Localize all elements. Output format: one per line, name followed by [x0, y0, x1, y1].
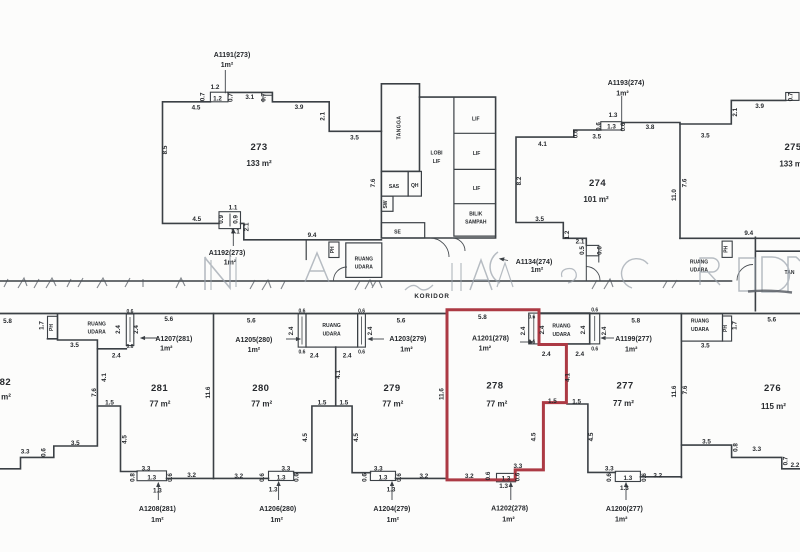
- ruang udara small box 277: [590, 313, 600, 344]
- svg-text:LIF: LIF: [473, 186, 481, 192]
- svg-text:2.4: 2.4: [575, 351, 584, 358]
- ruang udara box 282-281: [48, 314, 127, 349]
- svg-text:0.6: 0.6: [299, 309, 306, 315]
- svg-text:2.4: 2.4: [601, 326, 608, 335]
- svg-text:1.7: 1.7: [732, 321, 739, 330]
- svg-text:0.9: 0.9: [232, 215, 239, 224]
- svg-text:5.8: 5.8: [631, 318, 640, 325]
- svg-text:1.3: 1.3: [379, 474, 388, 481]
- svg-text:0.6: 0.6: [40, 448, 47, 457]
- svg-text:A1206(280): A1206(280): [259, 506, 296, 513]
- svg-text:4.5: 4.5: [192, 216, 201, 223]
- svg-text:0.6: 0.6: [591, 347, 598, 353]
- svg-text:4.1: 4.1: [538, 141, 547, 148]
- svg-text:273: 273: [250, 142, 267, 153]
- svg-text:11.6: 11.6: [671, 385, 678, 397]
- svg-text:0.7: 0.7: [783, 456, 790, 465]
- svg-text:1.3: 1.3: [153, 488, 162, 495]
- svg-text:4.5: 4.5: [588, 432, 595, 441]
- svg-text:2.4: 2.4: [310, 353, 319, 360]
- A1134 niche box: [586, 245, 599, 255]
- svg-text:3.2: 3.2: [465, 473, 474, 480]
- svg-text:1.5: 1.5: [340, 400, 349, 407]
- A1192 niche box: [219, 212, 241, 229]
- wall 282/281: [0, 349, 97, 469]
- 279 bottom niche box: [370, 471, 395, 480]
- ruang udara small box 279: [358, 314, 366, 347]
- svg-text:1.2: 1.2: [213, 95, 222, 102]
- svg-text:3.9: 3.9: [295, 104, 304, 111]
- svg-text:A1199(277): A1199(277): [615, 336, 652, 343]
- svg-text:3.3: 3.3: [514, 463, 523, 470]
- door arc left ruang udara: [334, 267, 348, 281]
- svg-text:4.1: 4.1: [335, 370, 342, 379]
- svg-text:77 m²: 77 m²: [0, 393, 11, 402]
- svg-text:9.4: 9.4: [744, 230, 753, 237]
- arrow A1201: [520, 341, 533, 343]
- qh room: [408, 171, 421, 196]
- svg-text:3.5: 3.5: [350, 135, 359, 142]
- svg-text:1.5: 1.5: [548, 398, 557, 405]
- svg-text:0.6: 0.6: [299, 350, 306, 356]
- arrow A1207: [141, 337, 158, 339]
- svg-text:LIF: LIF: [433, 159, 441, 165]
- svg-text:A1191(273): A1191(273): [214, 52, 251, 59]
- svg-text:1.3: 1.3: [620, 485, 629, 492]
- stub wall below 273: [305, 240, 307, 260]
- svg-text:2.4: 2.4: [539, 325, 546, 334]
- svg-text:8.2: 8.2: [516, 176, 523, 185]
- svg-text:11.6: 11.6: [205, 386, 212, 398]
- svg-text:1.1: 1.1: [229, 205, 238, 212]
- svg-text:3.1: 3.1: [245, 94, 254, 101]
- svg-text:BILIK: BILIK: [469, 212, 482, 218]
- svg-text:1.3: 1.3: [277, 474, 286, 481]
- se room: [381, 223, 424, 238]
- svg-text:1m²: 1m²: [151, 517, 164, 524]
- svg-text:0.6: 0.6: [528, 315, 535, 321]
- svg-text:5.8: 5.8: [3, 318, 12, 325]
- svg-text:2.4: 2.4: [542, 351, 551, 358]
- svg-text:1.3: 1.3: [147, 475, 156, 482]
- svg-text:A1208(281): A1208(281): [139, 506, 176, 513]
- svg-text:0.7: 0.7: [788, 92, 795, 101]
- door notch 273 top: [263, 95, 272, 102]
- leader A1206: [278, 482, 280, 500]
- svg-text:4.5: 4.5: [353, 433, 360, 442]
- svg-text:11.6: 11.6: [438, 388, 445, 400]
- svg-text:279: 279: [383, 383, 400, 394]
- unit 275 outline: [680, 100, 786, 124]
- door arc core: [430, 238, 449, 257]
- svg-text:3.3: 3.3: [282, 466, 291, 473]
- svg-text:3.5: 3.5: [701, 343, 710, 350]
- svg-text:QH: QH: [411, 183, 419, 189]
- svg-text:2.4: 2.4: [288, 326, 295, 335]
- ph box 276: [723, 316, 732, 341]
- wall 277/276: [680, 314, 682, 478]
- svg-text:280: 280: [252, 383, 269, 394]
- svg-text:281: 281: [151, 383, 168, 394]
- svg-text:1m²: 1m²: [616, 91, 629, 98]
- leader A1192: [232, 229, 234, 246]
- arrow A1203: [369, 338, 385, 340]
- svg-text:278: 278: [486, 381, 503, 392]
- svg-text:1.3: 1.3: [387, 487, 396, 494]
- svg-text:1.2: 1.2: [564, 230, 571, 239]
- svg-text:5.6: 5.6: [767, 317, 776, 324]
- ph box unit282: [48, 316, 58, 339]
- svg-text:0.6: 0.6: [127, 344, 134, 350]
- leader A1204: [391, 482, 393, 500]
- svg-text:RUANG: RUANG: [322, 323, 340, 329]
- svg-text:A1202(278): A1202(278): [491, 506, 528, 513]
- svg-text:7.6: 7.6: [91, 388, 98, 397]
- svg-text:0.6: 0.6: [573, 129, 580, 138]
- watermark strokes: [4, 252, 800, 292]
- svg-text:1m²: 1m²: [479, 346, 492, 353]
- svg-text:3.5: 3.5: [701, 133, 710, 140]
- svg-text:PH: PH: [723, 245, 729, 252]
- ruang udara small box 281: [126, 314, 134, 346]
- 277 bottom wall: [640, 476, 681, 478]
- svg-text:7.6: 7.6: [682, 178, 689, 187]
- 281 bottom wall: [167, 477, 214, 479]
- bottom units top line: [0, 313, 800, 315]
- svg-text:2.4: 2.4: [520, 326, 527, 335]
- svg-text:0.6: 0.6: [641, 473, 648, 482]
- stair wall right: [755, 237, 800, 310]
- svg-text:275: 275: [784, 142, 800, 153]
- svg-text:0.6: 0.6: [127, 309, 134, 315]
- arrow A1205: [286, 338, 300, 340]
- svg-text:77 m²: 77 m²: [613, 399, 634, 408]
- 280 bottom niche box: [269, 471, 294, 480]
- niche divider: [229, 214, 231, 226]
- svg-text:4.5: 4.5: [121, 435, 128, 444]
- svg-text:A1200(277): A1200(277): [606, 506, 643, 513]
- svg-text:KORIDOR: KORIDOR: [414, 293, 449, 300]
- svg-text:1m²: 1m²: [615, 517, 628, 524]
- smudge mark: [748, 291, 792, 293]
- svg-text:0.6: 0.6: [591, 308, 598, 314]
- ph box right corridor: [722, 241, 732, 257]
- svg-text:1m²: 1m²: [387, 517, 400, 524]
- svg-text:2.4: 2.4: [343, 353, 352, 360]
- svg-text:A1193(274): A1193(274): [608, 80, 645, 87]
- svg-text:7.6: 7.6: [370, 178, 377, 187]
- svg-text:PH: PH: [49, 324, 55, 331]
- svg-text:RUANG: RUANG: [88, 322, 106, 328]
- svg-text:UDARA: UDARA: [691, 327, 709, 333]
- ruang udara box 278-277: [539, 313, 590, 344]
- svg-text:RUANG: RUANG: [355, 257, 373, 263]
- svg-text:2.4: 2.4: [133, 325, 140, 334]
- svg-text:1m²: 1m²: [531, 267, 544, 274]
- svg-text:LOBI: LOBI: [431, 151, 444, 157]
- svg-text:2.1: 2.1: [244, 222, 251, 231]
- leader A1134: [500, 259, 508, 261]
- svg-text:3.2: 3.2: [187, 472, 196, 479]
- svg-text:0.6: 0.6: [358, 309, 365, 315]
- svg-text:8.5: 8.5: [162, 145, 169, 154]
- svg-text:SE: SE: [394, 230, 401, 236]
- svg-text:UDARA: UDARA: [88, 330, 106, 336]
- svg-text:1m²: 1m²: [221, 62, 234, 69]
- svg-text:77 m²: 77 m²: [486, 400, 507, 409]
- svg-text:SW: SW: [383, 200, 389, 208]
- svg-text:77 m²: 77 m²: [382, 400, 403, 409]
- arrow 2.4 box1: [129, 317, 131, 342]
- svg-text:1.3: 1.3: [609, 112, 618, 119]
- svg-text:3.2: 3.2: [234, 473, 243, 480]
- A1193 niche box: [601, 122, 622, 130]
- svg-text:0.6: 0.6: [514, 472, 521, 481]
- svg-text:3.8: 3.8: [646, 124, 655, 131]
- svg-text:SAS: SAS: [389, 184, 400, 190]
- door arc core 2: [452, 238, 465, 251]
- svg-text:0.5: 0.5: [579, 246, 586, 255]
- svg-text:3.9: 3.9: [755, 103, 764, 110]
- svg-text:5.8: 5.8: [478, 314, 487, 321]
- svg-text:2.4: 2.4: [115, 325, 122, 334]
- svg-text:1.5: 1.5: [318, 400, 327, 407]
- leader A1193: [621, 96, 623, 122]
- arrow 2.4 box3L: [533, 316, 535, 341]
- svg-text:2.1: 2.1: [576, 239, 585, 246]
- svg-text:0.6: 0.6: [596, 246, 603, 255]
- svg-text:1m²: 1m²: [502, 517, 515, 524]
- svg-text:0.6: 0.6: [595, 122, 602, 131]
- sas room: [381, 171, 408, 196]
- svg-text:1m²: 1m²: [400, 347, 413, 354]
- tangga room: [381, 84, 419, 172]
- svg-text:A1203(279): A1203(279): [389, 336, 426, 343]
- 280 bottom wall: [214, 477, 269, 479]
- svg-text:1.3: 1.3: [269, 487, 278, 494]
- core outline: [381, 97, 495, 238]
- svg-text:0.6: 0.6: [293, 473, 300, 482]
- svg-text:2.1: 2.1: [732, 107, 739, 116]
- svg-text:3.5: 3.5: [70, 342, 79, 349]
- svg-text:3.3: 3.3: [605, 466, 614, 473]
- svg-text:0.6: 0.6: [528, 340, 535, 346]
- svg-text:3.3: 3.3: [374, 466, 383, 473]
- svg-text:4.5: 4.5: [302, 433, 309, 442]
- svg-text:0.6: 0.6: [259, 473, 266, 482]
- svg-text:3.2: 3.2: [420, 473, 429, 480]
- 277 bottom niche box: [615, 471, 640, 481]
- svg-text:0.6: 0.6: [396, 473, 403, 482]
- svg-text:0.6: 0.6: [620, 122, 627, 131]
- svg-text:SAMPAH: SAMPAH: [465, 220, 487, 226]
- svg-text:4.1: 4.1: [565, 373, 572, 382]
- svg-text:0.6: 0.6: [358, 350, 365, 356]
- unit 277 boundary step: [567, 404, 615, 472]
- svg-text:RUANG: RUANG: [552, 324, 570, 330]
- ph box left corridor: [329, 242, 339, 258]
- arrow 2.4 box3R: [594, 316, 596, 341]
- svg-text:5.6: 5.6: [247, 318, 256, 325]
- svg-text:0.9: 0.9: [218, 215, 225, 224]
- svg-text:5.6: 5.6: [164, 316, 173, 323]
- svg-text:3.5: 3.5: [702, 439, 711, 446]
- svg-text:1.7: 1.7: [38, 321, 45, 330]
- svg-text:TANGGA: TANGGA: [397, 116, 403, 140]
- svg-text:A1134(274): A1134(274): [516, 259, 553, 266]
- svg-text:1.3: 1.3: [502, 476, 511, 483]
- svg-text:PH: PH: [723, 325, 729, 332]
- door arc 274: [586, 267, 600, 281]
- svg-text:A1207(281): A1207(281): [155, 336, 192, 343]
- leader A1200: [625, 483, 627, 500]
- svg-text:A1192(273): A1192(273): [209, 250, 246, 257]
- svg-text:RUANG: RUANG: [690, 260, 708, 266]
- wall 280/279 tee: [294, 347, 371, 473]
- svg-text:115 m²: 115 m²: [761, 402, 786, 411]
- arrow 2.4 box2R: [361, 317, 363, 345]
- svg-text:1m²: 1m²: [160, 346, 173, 353]
- svg-text:2.4: 2.4: [367, 326, 374, 335]
- svg-text:0.7: 0.7: [228, 93, 235, 102]
- svg-text:282: 282: [0, 377, 11, 388]
- svg-text:UDARA: UDARA: [552, 332, 570, 338]
- svg-text:1.1: 1.1: [231, 228, 240, 235]
- svg-text:4.5: 4.5: [192, 105, 201, 112]
- svg-text:1.5: 1.5: [105, 400, 114, 407]
- svg-text:1m²: 1m²: [270, 517, 283, 524]
- leader A1191: [224, 70, 226, 93]
- svg-text:1.3: 1.3: [607, 124, 616, 131]
- arrow A1199: [602, 337, 615, 339]
- svg-text:UDARA: UDARA: [323, 332, 341, 338]
- 281 bottom niche box: [137, 471, 167, 481]
- svg-text:1m²: 1m²: [625, 347, 638, 354]
- ruang udara small box 280: [298, 314, 306, 347]
- svg-text:3.5: 3.5: [71, 440, 80, 447]
- svg-text:4.5: 4.5: [531, 432, 538, 441]
- ruang udara box 280-279: [306, 314, 358, 347]
- svg-text:0.6: 0.6: [167, 473, 174, 482]
- svg-text:277: 277: [616, 381, 633, 392]
- svg-text:2.2: 2.2: [791, 462, 800, 469]
- 276 bottom steps: [681, 445, 800, 469]
- svg-text:LIF: LIF: [472, 117, 480, 123]
- svg-text:3.5: 3.5: [535, 216, 544, 223]
- sw room: [381, 196, 393, 211]
- svg-text:A1201(278): A1201(278): [472, 336, 509, 343]
- svg-text:LIF: LIF: [473, 151, 481, 157]
- ruang udara box 276: [681, 314, 722, 341]
- svg-text:1.3: 1.3: [499, 483, 508, 490]
- svg-text:1.5: 1.5: [572, 399, 581, 406]
- svg-text:133 m²: 133 m²: [779, 160, 800, 169]
- svg-text:4.1: 4.1: [101, 373, 108, 382]
- svg-text:0.6: 0.6: [485, 471, 492, 480]
- svg-text:0.8: 0.8: [129, 473, 136, 482]
- 275 bottom wall 9.4: [680, 237, 800, 239]
- svg-text:2.4: 2.4: [580, 325, 587, 334]
- svg-text:0.8: 0.8: [733, 443, 740, 452]
- svg-text:3.3: 3.3: [752, 446, 761, 453]
- svg-text:3.3: 3.3: [142, 466, 151, 473]
- leader A1208: [157, 483, 159, 500]
- svg-text:11.0: 11.0: [671, 189, 678, 201]
- svg-text:2.4: 2.4: [112, 353, 121, 360]
- corridor top line: [0, 280, 732, 282]
- A1191 niche box: [210, 92, 228, 102]
- svg-text:1m²: 1m²: [248, 347, 261, 354]
- svg-text:77 m²: 77 m²: [251, 400, 272, 409]
- 278 bottom niche box: [497, 473, 516, 481]
- svg-text:PH: PH: [330, 246, 336, 253]
- svg-text:0.6: 0.6: [606, 473, 613, 482]
- leader A1202: [510, 483, 512, 500]
- 279 bottom wall: [396, 477, 448, 479]
- svg-text:A1204(279): A1204(279): [373, 506, 410, 513]
- svg-text:UDARA: UDARA: [355, 265, 373, 271]
- svg-text:1.3: 1.3: [624, 475, 633, 482]
- unit 281 boundary step: [97, 406, 137, 472]
- svg-text:1.2: 1.2: [211, 84, 220, 91]
- svg-text:276: 276: [764, 383, 781, 394]
- svg-text:A1205(280): A1205(280): [235, 337, 272, 344]
- svg-text:274: 274: [589, 178, 606, 189]
- door arc right: [737, 265, 753, 281]
- svg-text:0.6: 0.6: [361, 473, 368, 482]
- svg-text:5.6: 5.6: [397, 318, 406, 325]
- unit 274 outline: [516, 123, 680, 246]
- wall 281/280: [213, 314, 215, 479]
- arrow 2.4 box2L: [301, 317, 303, 345]
- svg-text:133 m²: 133 m²: [246, 159, 272, 168]
- arrow niche 273: [229, 215, 231, 227]
- ruang udara small box 278: [529, 313, 539, 344]
- svg-text:3.3: 3.3: [21, 449, 30, 456]
- svg-text:9.4: 9.4: [308, 232, 317, 239]
- svg-text:2.1: 2.1: [320, 111, 327, 120]
- red highlight unit 278: [447, 310, 566, 480]
- svg-text:7.6: 7.6: [682, 385, 689, 394]
- svg-text:0.7: 0.7: [200, 92, 207, 101]
- svg-text:3.5: 3.5: [592, 133, 601, 140]
- door jambs 274: [586, 256, 599, 281]
- svg-text:0.7: 0.7: [261, 92, 268, 101]
- svg-text:101 m²: 101 m²: [583, 195, 609, 204]
- svg-text:3.2: 3.2: [653, 473, 662, 480]
- unit 273 outline: [163, 92, 382, 239]
- ruang udara box top-left: [346, 243, 382, 278]
- svg-text:77 m²: 77 m²: [150, 400, 171, 409]
- svg-text:RUANG: RUANG: [691, 319, 709, 325]
- lif shafts: [454, 97, 496, 236]
- 275 niche box: [786, 93, 799, 101]
